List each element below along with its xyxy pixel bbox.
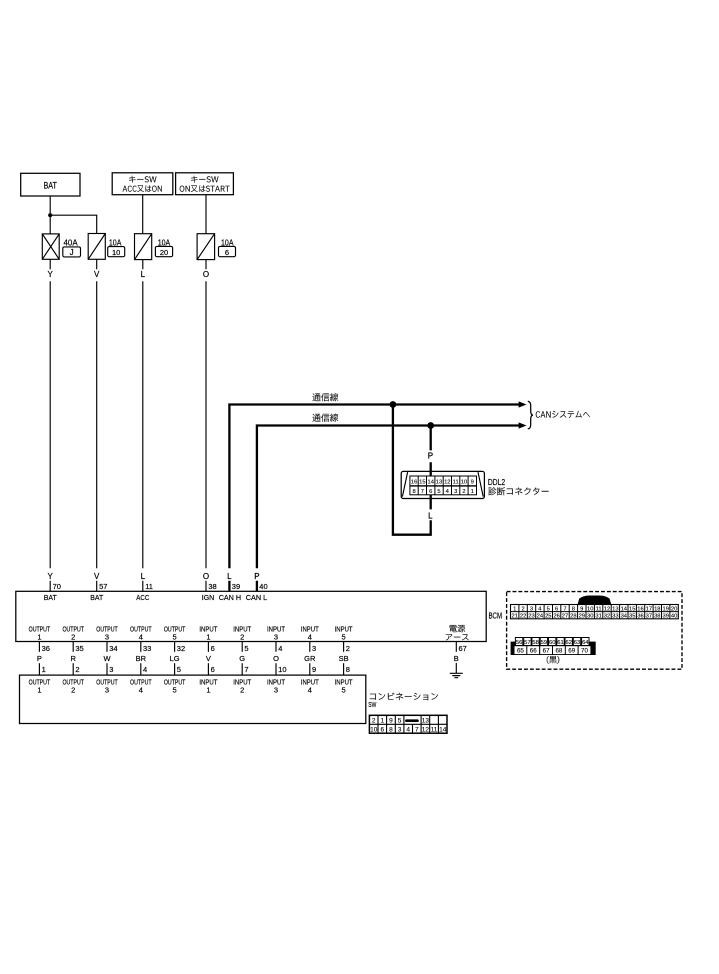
key switch box ACC xyxy=(112,173,173,195)
svg-text:10: 10 xyxy=(370,726,378,733)
connector DDL2 outline xyxy=(401,471,484,498)
svg-text:59: 59 xyxy=(541,640,547,646)
svg-text:65: 65 xyxy=(517,648,524,655)
svg-text:38: 38 xyxy=(208,582,216,591)
svg-text:L: L xyxy=(141,572,146,581)
svg-text:12: 12 xyxy=(444,480,450,486)
svg-text:3: 3 xyxy=(109,665,113,674)
svg-text:9: 9 xyxy=(389,717,393,724)
svg-text:4: 4 xyxy=(143,665,147,674)
svg-text:Y: Y xyxy=(48,572,54,581)
wire L from fuse to BCM xyxy=(142,260,144,592)
svg-text:40: 40 xyxy=(259,582,267,591)
svg-text:15: 15 xyxy=(629,606,635,612)
svg-text:7: 7 xyxy=(415,726,419,733)
combination SW pin 3 tick xyxy=(106,663,108,675)
svg-text:57: 57 xyxy=(524,640,530,646)
svg-text:3: 3 xyxy=(312,644,316,653)
svg-text:26: 26 xyxy=(553,613,559,619)
svg-text:14: 14 xyxy=(621,606,628,612)
svg-text:6: 6 xyxy=(429,489,432,495)
connector latch tab xyxy=(578,596,612,605)
label combination SW xyxy=(370,693,438,701)
wire CAN L (to pin 40) xyxy=(257,426,519,592)
svg-text:1: 1 xyxy=(513,606,516,612)
svg-text:1: 1 xyxy=(206,686,210,695)
svg-text:21: 21 xyxy=(511,613,517,619)
connector B pin 66 xyxy=(527,646,539,654)
svg-text:BR: BR xyxy=(136,654,147,663)
svg-text:19: 19 xyxy=(662,606,668,612)
combination SW pin 6 tick xyxy=(207,663,209,675)
connector B pin 68 xyxy=(553,646,565,654)
combination SW pin 1 tick xyxy=(38,663,40,675)
connector B pin 62 xyxy=(565,638,572,646)
combination SW pin 7 tick xyxy=(241,663,243,675)
svg-text:18: 18 xyxy=(654,606,660,612)
svg-text:2: 2 xyxy=(346,644,350,653)
svg-text:Y: Y xyxy=(48,270,54,279)
connector B pin 63 xyxy=(573,638,580,646)
svg-text:4: 4 xyxy=(406,726,410,733)
svg-text:29: 29 xyxy=(579,613,585,619)
svg-text:R: R xyxy=(70,654,76,663)
svg-text:BCM: BCM xyxy=(489,610,503,620)
wire branch to fuse F2 xyxy=(50,215,96,233)
svg-text:23: 23 xyxy=(528,613,534,619)
svg-text:G: G xyxy=(239,654,245,663)
svg-text:38: 38 xyxy=(654,613,660,619)
svg-text:J: J xyxy=(70,248,74,257)
fuse id box 6 xyxy=(219,246,236,257)
junction node CAN L xyxy=(427,422,434,429)
svg-text:2: 2 xyxy=(240,686,244,695)
svg-text:6: 6 xyxy=(555,606,558,612)
svg-text:V: V xyxy=(94,270,100,279)
svg-text:70: 70 xyxy=(581,648,588,655)
svg-text:9: 9 xyxy=(580,606,583,612)
svg-text:GR: GR xyxy=(304,654,316,663)
svg-text:DDL2: DDL2 xyxy=(488,477,505,487)
svg-text:BAT: BAT xyxy=(90,593,103,602)
svg-text:37: 37 xyxy=(646,613,652,619)
svg-text:12: 12 xyxy=(422,726,430,733)
svg-text:SW: SW xyxy=(368,700,377,709)
wire DDL2 CAN L drop (P) xyxy=(430,426,432,477)
svg-text:3: 3 xyxy=(530,606,533,612)
svg-text:36: 36 xyxy=(42,644,50,653)
svg-text:2: 2 xyxy=(462,489,465,495)
svg-text:31: 31 xyxy=(595,613,601,619)
svg-text:66: 66 xyxy=(530,648,537,655)
svg-text:1: 1 xyxy=(471,489,474,495)
connector B pin 70 xyxy=(579,646,591,654)
svg-text:28: 28 xyxy=(570,613,576,619)
BCM pin 34 tick xyxy=(106,641,108,651)
svg-text:27: 27 xyxy=(562,613,568,619)
svg-text:5: 5 xyxy=(547,606,550,612)
fuse F4 10A xyxy=(197,234,215,260)
svg-text:5: 5 xyxy=(173,686,177,695)
BCM pin 5 tick xyxy=(241,641,243,651)
svg-text:P: P xyxy=(254,572,259,581)
connector B pin 60 xyxy=(549,638,556,646)
svg-text:2: 2 xyxy=(240,633,244,642)
svg-text:14: 14 xyxy=(427,480,434,486)
svg-text:ACC: ACC xyxy=(136,593,149,602)
svg-text:15: 15 xyxy=(419,480,425,486)
connector B pin 57 xyxy=(524,638,531,646)
svg-text:V: V xyxy=(94,572,100,581)
junction node CAN H xyxy=(390,401,397,408)
combination switch box xyxy=(20,675,366,723)
brace to CAN system xyxy=(528,401,533,429)
BCM pin 33 tick xyxy=(140,641,142,651)
svg-text:V: V xyxy=(206,654,211,663)
svg-text:56: 56 xyxy=(516,640,522,646)
connector B pin 65 xyxy=(515,646,527,654)
svg-text:CAN H: CAN H xyxy=(219,593,241,602)
wire V from fuse to BCM xyxy=(96,259,98,591)
BCM pin 2 tick xyxy=(343,641,345,651)
svg-text:60: 60 xyxy=(549,640,555,646)
svg-text:1: 1 xyxy=(42,665,46,674)
svg-text:12: 12 xyxy=(604,606,610,612)
svg-text:25: 25 xyxy=(545,613,551,619)
svg-text:33: 33 xyxy=(612,613,618,619)
svg-text:11: 11 xyxy=(596,606,602,612)
svg-text:8: 8 xyxy=(412,489,415,495)
svg-text:4: 4 xyxy=(308,686,312,695)
svg-text:1: 1 xyxy=(37,633,41,642)
svg-text:67: 67 xyxy=(543,648,550,655)
svg-text:W: W xyxy=(103,654,111,663)
svg-text:3: 3 xyxy=(398,726,402,733)
combination SW pin 4 tick xyxy=(140,663,142,675)
svg-text:64: 64 xyxy=(582,640,589,646)
svg-text:5: 5 xyxy=(398,717,402,724)
svg-text:6: 6 xyxy=(211,644,215,653)
svg-text:39: 39 xyxy=(662,613,668,619)
svg-text:35: 35 xyxy=(629,613,635,619)
svg-text:BAT: BAT xyxy=(44,593,57,602)
svg-text:17: 17 xyxy=(646,606,652,612)
fuse id box 20 xyxy=(155,246,172,257)
svg-text:L: L xyxy=(141,270,146,279)
svg-text:35: 35 xyxy=(75,644,83,653)
junction node on BAT wire xyxy=(48,213,52,217)
svg-text:2: 2 xyxy=(71,686,75,695)
label diagnostic connector xyxy=(488,487,548,495)
connector B pin 56 xyxy=(515,638,522,646)
ground wire xyxy=(455,663,457,673)
combination SW pin 8 tick xyxy=(343,663,345,675)
svg-text:L: L xyxy=(428,512,433,521)
svg-text:4: 4 xyxy=(139,686,143,695)
wire DDL2 CAN H loop (L) xyxy=(393,405,431,535)
svg-text:5: 5 xyxy=(177,665,181,674)
svg-text:70: 70 xyxy=(53,582,61,591)
svg-text:36: 36 xyxy=(637,613,643,619)
svg-text:8: 8 xyxy=(389,726,393,733)
arrowhead CAN H xyxy=(519,401,527,407)
svg-text:4: 4 xyxy=(308,633,312,642)
fusible link F1 40A xyxy=(42,234,59,259)
svg-text:8: 8 xyxy=(572,606,575,612)
svg-text:5: 5 xyxy=(342,686,346,695)
label tsushinsen lower xyxy=(312,414,338,422)
combination SW pin 5 tick xyxy=(174,663,176,675)
label tsushinsen upper xyxy=(312,393,338,401)
svg-text:39: 39 xyxy=(232,582,240,591)
svg-text:5: 5 xyxy=(244,644,248,653)
BCM pin 36 tick xyxy=(38,641,40,651)
svg-text:CAN L: CAN L xyxy=(246,593,267,602)
svg-text:68: 68 xyxy=(555,648,562,655)
svg-text:O: O xyxy=(203,572,209,581)
svg-text:24: 24 xyxy=(537,613,544,619)
svg-text:16: 16 xyxy=(637,606,643,612)
BCM pin 6 tick xyxy=(207,641,209,651)
svg-text:1: 1 xyxy=(37,686,41,695)
svg-text:3: 3 xyxy=(274,633,278,642)
svg-text:3: 3 xyxy=(274,686,278,695)
svg-text:P: P xyxy=(37,654,42,663)
svg-text:57: 57 xyxy=(99,582,107,591)
svg-text:63: 63 xyxy=(574,640,580,646)
combination SW pin 2 tick xyxy=(72,663,74,675)
svg-text:13: 13 xyxy=(436,480,442,486)
svg-text:10: 10 xyxy=(112,248,120,257)
svg-text:32: 32 xyxy=(177,644,185,653)
svg-text:10: 10 xyxy=(587,606,593,612)
svg-text:11: 11 xyxy=(431,726,438,733)
svg-text:7: 7 xyxy=(244,665,248,674)
wire key SW ACC to fuse F3 xyxy=(142,195,144,234)
svg-text:14: 14 xyxy=(439,726,447,733)
connector B pin 67 xyxy=(540,646,552,654)
connector B pin 69 xyxy=(566,646,578,654)
svg-text:3: 3 xyxy=(105,686,109,695)
svg-text:61: 61 xyxy=(557,640,563,646)
BCM pin 32 tick xyxy=(174,641,176,651)
svg-text:5: 5 xyxy=(437,489,440,495)
wire CAN H (to pin 39) xyxy=(229,405,519,592)
combination SW pin 10 tick xyxy=(275,663,277,675)
BCM pin 4 tick xyxy=(275,641,277,651)
svg-text:58: 58 xyxy=(532,640,538,646)
svg-text:9: 9 xyxy=(471,480,474,486)
svg-text:6: 6 xyxy=(211,665,215,674)
svg-text:67: 67 xyxy=(459,644,467,653)
fuse F2 10A xyxy=(88,234,105,260)
BCM pin 35 tick xyxy=(72,641,74,651)
combination SW pin 9 tick xyxy=(309,663,311,675)
svg-text:BAT: BAT xyxy=(43,180,57,191)
svg-text:11: 11 xyxy=(453,480,459,486)
svg-text:8: 8 xyxy=(346,665,350,674)
label (black) xyxy=(547,656,560,664)
svg-text:O: O xyxy=(273,654,279,663)
svg-text:L: L xyxy=(227,572,232,581)
svg-text:1: 1 xyxy=(206,633,210,642)
svg-text:62: 62 xyxy=(565,640,571,646)
BCM pin 3 tick xyxy=(309,641,311,651)
svg-text:7: 7 xyxy=(421,489,424,495)
wire BAT to fuse F1 xyxy=(49,196,51,234)
key switch box ON/START xyxy=(176,173,234,195)
svg-text:1: 1 xyxy=(380,717,384,724)
svg-text:34: 34 xyxy=(109,644,117,653)
fuse id box 10 xyxy=(108,247,125,258)
connector key bar xyxy=(405,719,419,722)
svg-text:O: O xyxy=(203,270,209,279)
wire O from fuse to BCM xyxy=(205,260,207,592)
BCM pin 67 tick xyxy=(455,641,457,651)
svg-text:30: 30 xyxy=(587,613,593,619)
svg-text:6: 6 xyxy=(225,248,229,257)
fuse id box J xyxy=(63,247,81,257)
svg-text:20: 20 xyxy=(160,248,168,257)
wire key SW ON/START to fuse F4 xyxy=(205,195,207,234)
svg-text:22: 22 xyxy=(520,613,526,619)
svg-text:SB: SB xyxy=(339,654,349,663)
svg-text:2: 2 xyxy=(521,606,524,612)
arrowhead CAN L xyxy=(519,422,527,428)
svg-text:7: 7 xyxy=(563,606,566,612)
connector B pin 61 xyxy=(557,638,564,646)
svg-text:5: 5 xyxy=(173,633,177,642)
wire Y from fuse to BCM xyxy=(49,259,51,591)
battery box BAT xyxy=(21,173,80,196)
svg-text:10: 10 xyxy=(278,665,286,674)
svg-text:40: 40 xyxy=(671,613,677,619)
connector B pin 59 xyxy=(540,638,547,646)
svg-text:20: 20 xyxy=(671,606,677,612)
svg-text:13: 13 xyxy=(422,717,430,724)
svg-text:4: 4 xyxy=(139,633,143,642)
svg-text:2: 2 xyxy=(71,633,75,642)
svg-text:P: P xyxy=(428,452,433,461)
svg-text:B: B xyxy=(454,654,459,663)
svg-text:11: 11 xyxy=(145,582,153,591)
svg-text:2: 2 xyxy=(372,717,376,724)
svg-text:34: 34 xyxy=(621,613,628,619)
BCM terminal label power ground xyxy=(450,625,466,632)
svg-text:5: 5 xyxy=(342,633,346,642)
svg-text:2: 2 xyxy=(75,665,79,674)
ECU box BCM xyxy=(16,591,486,641)
svg-text:4: 4 xyxy=(278,644,282,653)
BCM connector pin layout (black) xyxy=(511,638,596,656)
svg-text:3: 3 xyxy=(105,633,109,642)
svg-text:32: 32 xyxy=(604,613,610,619)
svg-text:16: 16 xyxy=(411,480,417,486)
connector B pin 58 xyxy=(532,638,539,646)
svg-text:9: 9 xyxy=(312,665,316,674)
ground symbol xyxy=(450,673,463,677)
svg-text:3: 3 xyxy=(454,489,457,495)
svg-text:69: 69 xyxy=(568,648,575,655)
svg-text:IGN: IGN xyxy=(202,593,215,602)
label CAN system xyxy=(536,411,590,418)
connector combination SW xyxy=(369,715,447,733)
svg-text:33: 33 xyxy=(143,644,151,653)
connector B pin 64 xyxy=(582,638,589,646)
svg-text:13: 13 xyxy=(612,606,618,612)
fuse F3 10A xyxy=(135,234,152,260)
svg-text:6: 6 xyxy=(380,726,384,733)
svg-text:LG: LG xyxy=(170,654,180,663)
svg-text:10: 10 xyxy=(461,480,467,486)
dashed connector detail box xyxy=(507,592,682,670)
